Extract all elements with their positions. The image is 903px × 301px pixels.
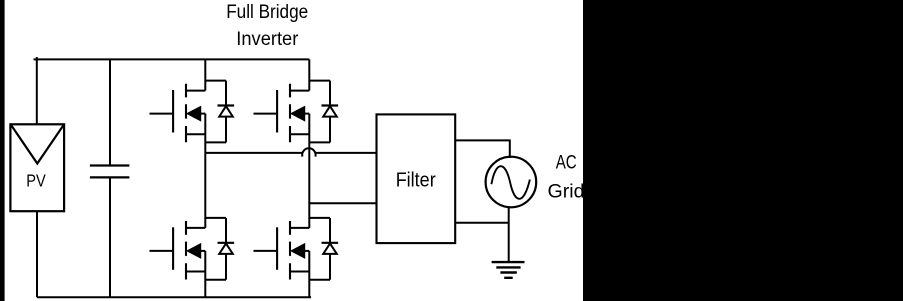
left black bar <box>0 0 5 301</box>
AC source sine wave <box>491 166 530 199</box>
svg-text:Filter: Filter <box>396 169 436 192</box>
Q4 channel dashes <box>289 221 291 280</box>
transistor Q4 (bottom-right MOSFET with body diode D4) <box>254 218 339 297</box>
Q1 source horizontal <box>186 133 205 135</box>
svg-text:Inverter: Inverter <box>236 28 298 50</box>
Q3 source vertical <box>204 251 206 297</box>
Q1 gate lead <box>150 113 173 115</box>
Q3 source horizontal <box>186 271 205 273</box>
Q1 drain vertical <box>204 59 206 90</box>
diode D3 anode lead <box>225 254 227 280</box>
capacitor C1 top lead <box>109 59 111 165</box>
wire AC source to ground <box>508 207 510 262</box>
Q4 source vertical <box>308 251 310 297</box>
diode D1 cathode bar <box>218 104 235 106</box>
Q2 source horizontal <box>290 133 309 135</box>
Q4 body line <box>303 250 310 252</box>
diode D3 bottom connection <box>205 279 226 281</box>
diode D4 cathode lead <box>329 218 331 243</box>
Q3 body line <box>199 250 206 252</box>
capacitor C1 bottom plate <box>90 176 129 178</box>
PV diode chevron <box>12 126 64 164</box>
diode D3 cathode lead <box>225 218 227 243</box>
transistor Q1 (top-left MOSFET with body diode D1) <box>150 59 235 153</box>
ground symbol <box>492 261 525 263</box>
svg-text:Full Bridge: Full Bridge <box>226 1 308 23</box>
PV module box <box>10 124 64 211</box>
svg-text:AC: AC <box>556 153 577 174</box>
diode D2 cathode lead <box>329 81 331 106</box>
diode D2 cathode bar <box>322 104 339 106</box>
Q3 gate bar <box>172 227 174 269</box>
Q2 channel dashes <box>289 84 291 143</box>
svg-text:Grid: Grid <box>548 182 585 203</box>
Q4 drain horizontal <box>290 227 309 229</box>
Q2 gate bar <box>276 90 278 133</box>
wire left leg midpoint to filter (output A) <box>205 152 302 154</box>
wire filter to AC source bottom <box>455 222 509 224</box>
Q3 channel dashes <box>185 221 187 280</box>
wire hop to filter <box>315 152 377 154</box>
diode D1 anode branch <box>205 80 226 82</box>
Q4 body arrow <box>291 244 305 258</box>
Q2 drain horizontal <box>290 90 309 92</box>
diode D1 anode lead <box>225 117 227 143</box>
wire bottom bus (DC-) <box>37 296 311 298</box>
Q4 gate bar <box>276 227 278 269</box>
Q3 drain horizontal <box>186 227 205 229</box>
diode D3 triangle <box>219 244 233 254</box>
Q2 source vertical down right leg <box>308 114 310 228</box>
diode D2 anode lead <box>329 117 331 143</box>
Q2 drain vertical <box>308 59 310 90</box>
Q2 body arrow <box>291 106 305 120</box>
Q1 gate bar <box>172 90 174 133</box>
diode D4 bottom connection <box>309 279 330 281</box>
Q2 gate lead <box>254 113 277 115</box>
AC source V1 circle <box>486 157 537 208</box>
diode D3 cathode bar <box>218 242 235 244</box>
wire hop over right leg <box>302 148 315 156</box>
transistor Q2 (top-right MOSFET with body diode D2) <box>254 59 339 228</box>
diode D2 bottom connection <box>309 141 330 143</box>
Q3 body arrow <box>187 244 201 258</box>
capacitor C1 top plate <box>90 164 129 166</box>
filter box <box>377 114 456 243</box>
Q4 gate lead <box>254 250 277 252</box>
wire PV negative lead <box>36 211 38 297</box>
Q1 channel dashes <box>185 84 187 143</box>
wire top bus (DC+) <box>34 58 310 60</box>
diode D4 triangle <box>323 244 337 254</box>
wire right leg to filter (output B) <box>309 202 376 204</box>
Q2 body line <box>303 113 310 115</box>
capacitor C1 bottom lead <box>109 177 111 297</box>
transistor Q3 (bottom-left MOSFET with body diode D3) <box>150 154 235 298</box>
diode D2 anode branch <box>309 80 330 82</box>
diode D1 bottom connection <box>205 141 226 143</box>
diode D4 anode lead <box>329 254 331 280</box>
Q3 gate lead <box>150 250 173 252</box>
diode D2 triangle <box>323 106 337 116</box>
Q1 drain horizontal <box>186 90 205 92</box>
wire PV positive lead <box>36 57 38 124</box>
diode D1 cathode lead <box>225 81 227 106</box>
Q1 body arrow <box>187 106 201 120</box>
diode D3 anode branch <box>205 217 226 219</box>
svg-text:PV: PV <box>26 171 46 191</box>
diode D4 anode branch <box>309 217 330 219</box>
Q4 source horizontal <box>290 271 309 273</box>
Q1 body line <box>199 113 206 115</box>
wire filter to AC source top <box>455 140 510 158</box>
Q1 source vertical <box>204 114 206 154</box>
diode D4 cathode bar <box>322 242 339 244</box>
Q3 drain vertical from mid node <box>204 154 206 228</box>
right black panel <box>583 0 903 301</box>
diode D1 triangle <box>219 106 233 116</box>
